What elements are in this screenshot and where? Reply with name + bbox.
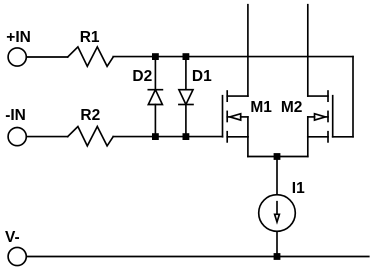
svg-text:+IN: +IN	[6, 29, 31, 46]
current source I1	[259, 195, 296, 232]
port +IN	[8, 48, 26, 66]
wire M2 gate lead	[333, 136, 353, 138]
junction dot D2 top	[152, 53, 159, 60]
wire tail to I1	[276, 157, 278, 195]
wire M2 drain	[307, 5, 309, 96]
wire I1 to rail	[276, 231, 278, 256]
junction dot D1 top	[183, 53, 190, 60]
wire top net R1 to right	[113, 56, 353, 58]
svg-text:-IN: -IN	[5, 107, 26, 124]
wire M1 source	[247, 137, 249, 157]
svg-text:D1: D1	[192, 68, 212, 85]
junction dot tail	[274, 153, 281, 160]
wire +IN to R1	[27, 56, 68, 58]
svg-text:I1: I1	[292, 180, 305, 197]
wire tail sources join	[248, 156, 308, 158]
svg-text:V-: V-	[5, 229, 20, 246]
wire V- rail	[27, 256, 369, 258]
svg-text:R2: R2	[80, 107, 100, 124]
port V-	[8, 247, 26, 265]
mosfet M1	[223, 91, 248, 142]
wire R2 to M1 gate	[113, 136, 222, 138]
wire M2 source	[307, 137, 309, 157]
svg-text:D2: D2	[132, 68, 152, 85]
wire right vertical to M2 gate	[352, 57, 354, 137]
port -IN	[8, 128, 26, 146]
svg-text:M1: M1	[250, 99, 272, 116]
junction dot D1 bottom	[183, 133, 190, 140]
wire M1 drain	[247, 5, 249, 96]
mosfet M2	[308, 91, 333, 142]
resistor R2	[68, 127, 114, 146]
wire -IN to R2	[27, 136, 68, 138]
resistor R1	[68, 47, 114, 66]
svg-text:M2: M2	[281, 99, 303, 116]
diode D2	[148, 57, 162, 137]
junction dot rail	[274, 253, 281, 260]
diode D1	[179, 57, 193, 137]
junction dot D2 bottom	[152, 133, 159, 140]
svg-text:R1: R1	[80, 29, 100, 46]
